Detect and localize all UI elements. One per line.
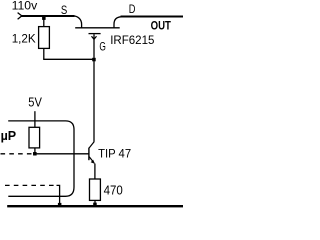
op channel bar of Q1	[75, 27, 120, 29]
svg-text:470: 470	[104, 182, 123, 197]
svg-text:110v: 110v	[12, 0, 38, 13]
node source junction dot	[42, 16, 46, 20]
resistor R1 lead top	[43, 17, 45, 27]
transistor Q1 gate bar	[89, 33, 101, 35]
wire 110v source (thick)	[22, 15, 75, 17]
resistor R1 body	[39, 27, 50, 49]
svg-text:D: D	[129, 2, 136, 16]
wire uP dashed to R2 node	[1, 153, 33, 155]
svg-text:1,2K: 1,2K	[12, 32, 36, 46]
svg-text:IRF6215: IRF6215	[110, 33, 155, 47]
svg-text:µP: µP	[1, 129, 17, 143]
wire base line to TIP47	[33, 153, 89, 155]
transistor Q1 gate arrow	[92, 36, 97, 39]
node R2 junction dot	[33, 152, 37, 156]
wire source corner into MOSFET bar	[74, 16, 82, 28]
svg-text:G: G	[99, 40, 106, 54]
svg-text:S: S	[61, 3, 67, 17]
wire emitter down	[94, 164, 96, 180]
svg-text:5V: 5V	[28, 95, 42, 110]
node R3 ground dot	[93, 203, 97, 207]
wire 5V lead	[34, 111, 36, 127]
wire R1 to gate	[43, 58, 94, 60]
input terminal chevron	[18, 13, 22, 20]
resistor R2 lead bottom	[34, 148, 36, 154]
transistor Q2 collector diagonal	[89, 142, 94, 148]
wire dashed corner to ground	[57, 185, 60, 205]
wire uP lower dashed line	[5, 184, 57, 186]
transistor Q2 base bar	[88, 148, 90, 161]
wire drain corner up to OUT	[114, 17, 122, 28]
node dashed ground dot	[58, 203, 62, 207]
svg-text:OUT: OUT	[151, 18, 172, 32]
wire gate vertical down to TIP47 collector	[93, 34, 95, 142]
resistor R3 lead bottom	[94, 200, 96, 205]
resistor R2 body	[29, 127, 40, 148]
wire OUT (thick)	[121, 16, 184, 18]
ground bus (thick)	[7, 205, 183, 207]
resistor R1 lead bottom	[43, 48, 45, 59]
resistor R3 body	[90, 179, 101, 200]
svg-text:TIP 47: TIP 47	[98, 147, 131, 161]
transistor Q2 emitter diagonal with arrow	[89, 157, 94, 163]
node gate junction dot	[92, 58, 96, 62]
wire uP upper line with corner down	[8, 121, 74, 196]
